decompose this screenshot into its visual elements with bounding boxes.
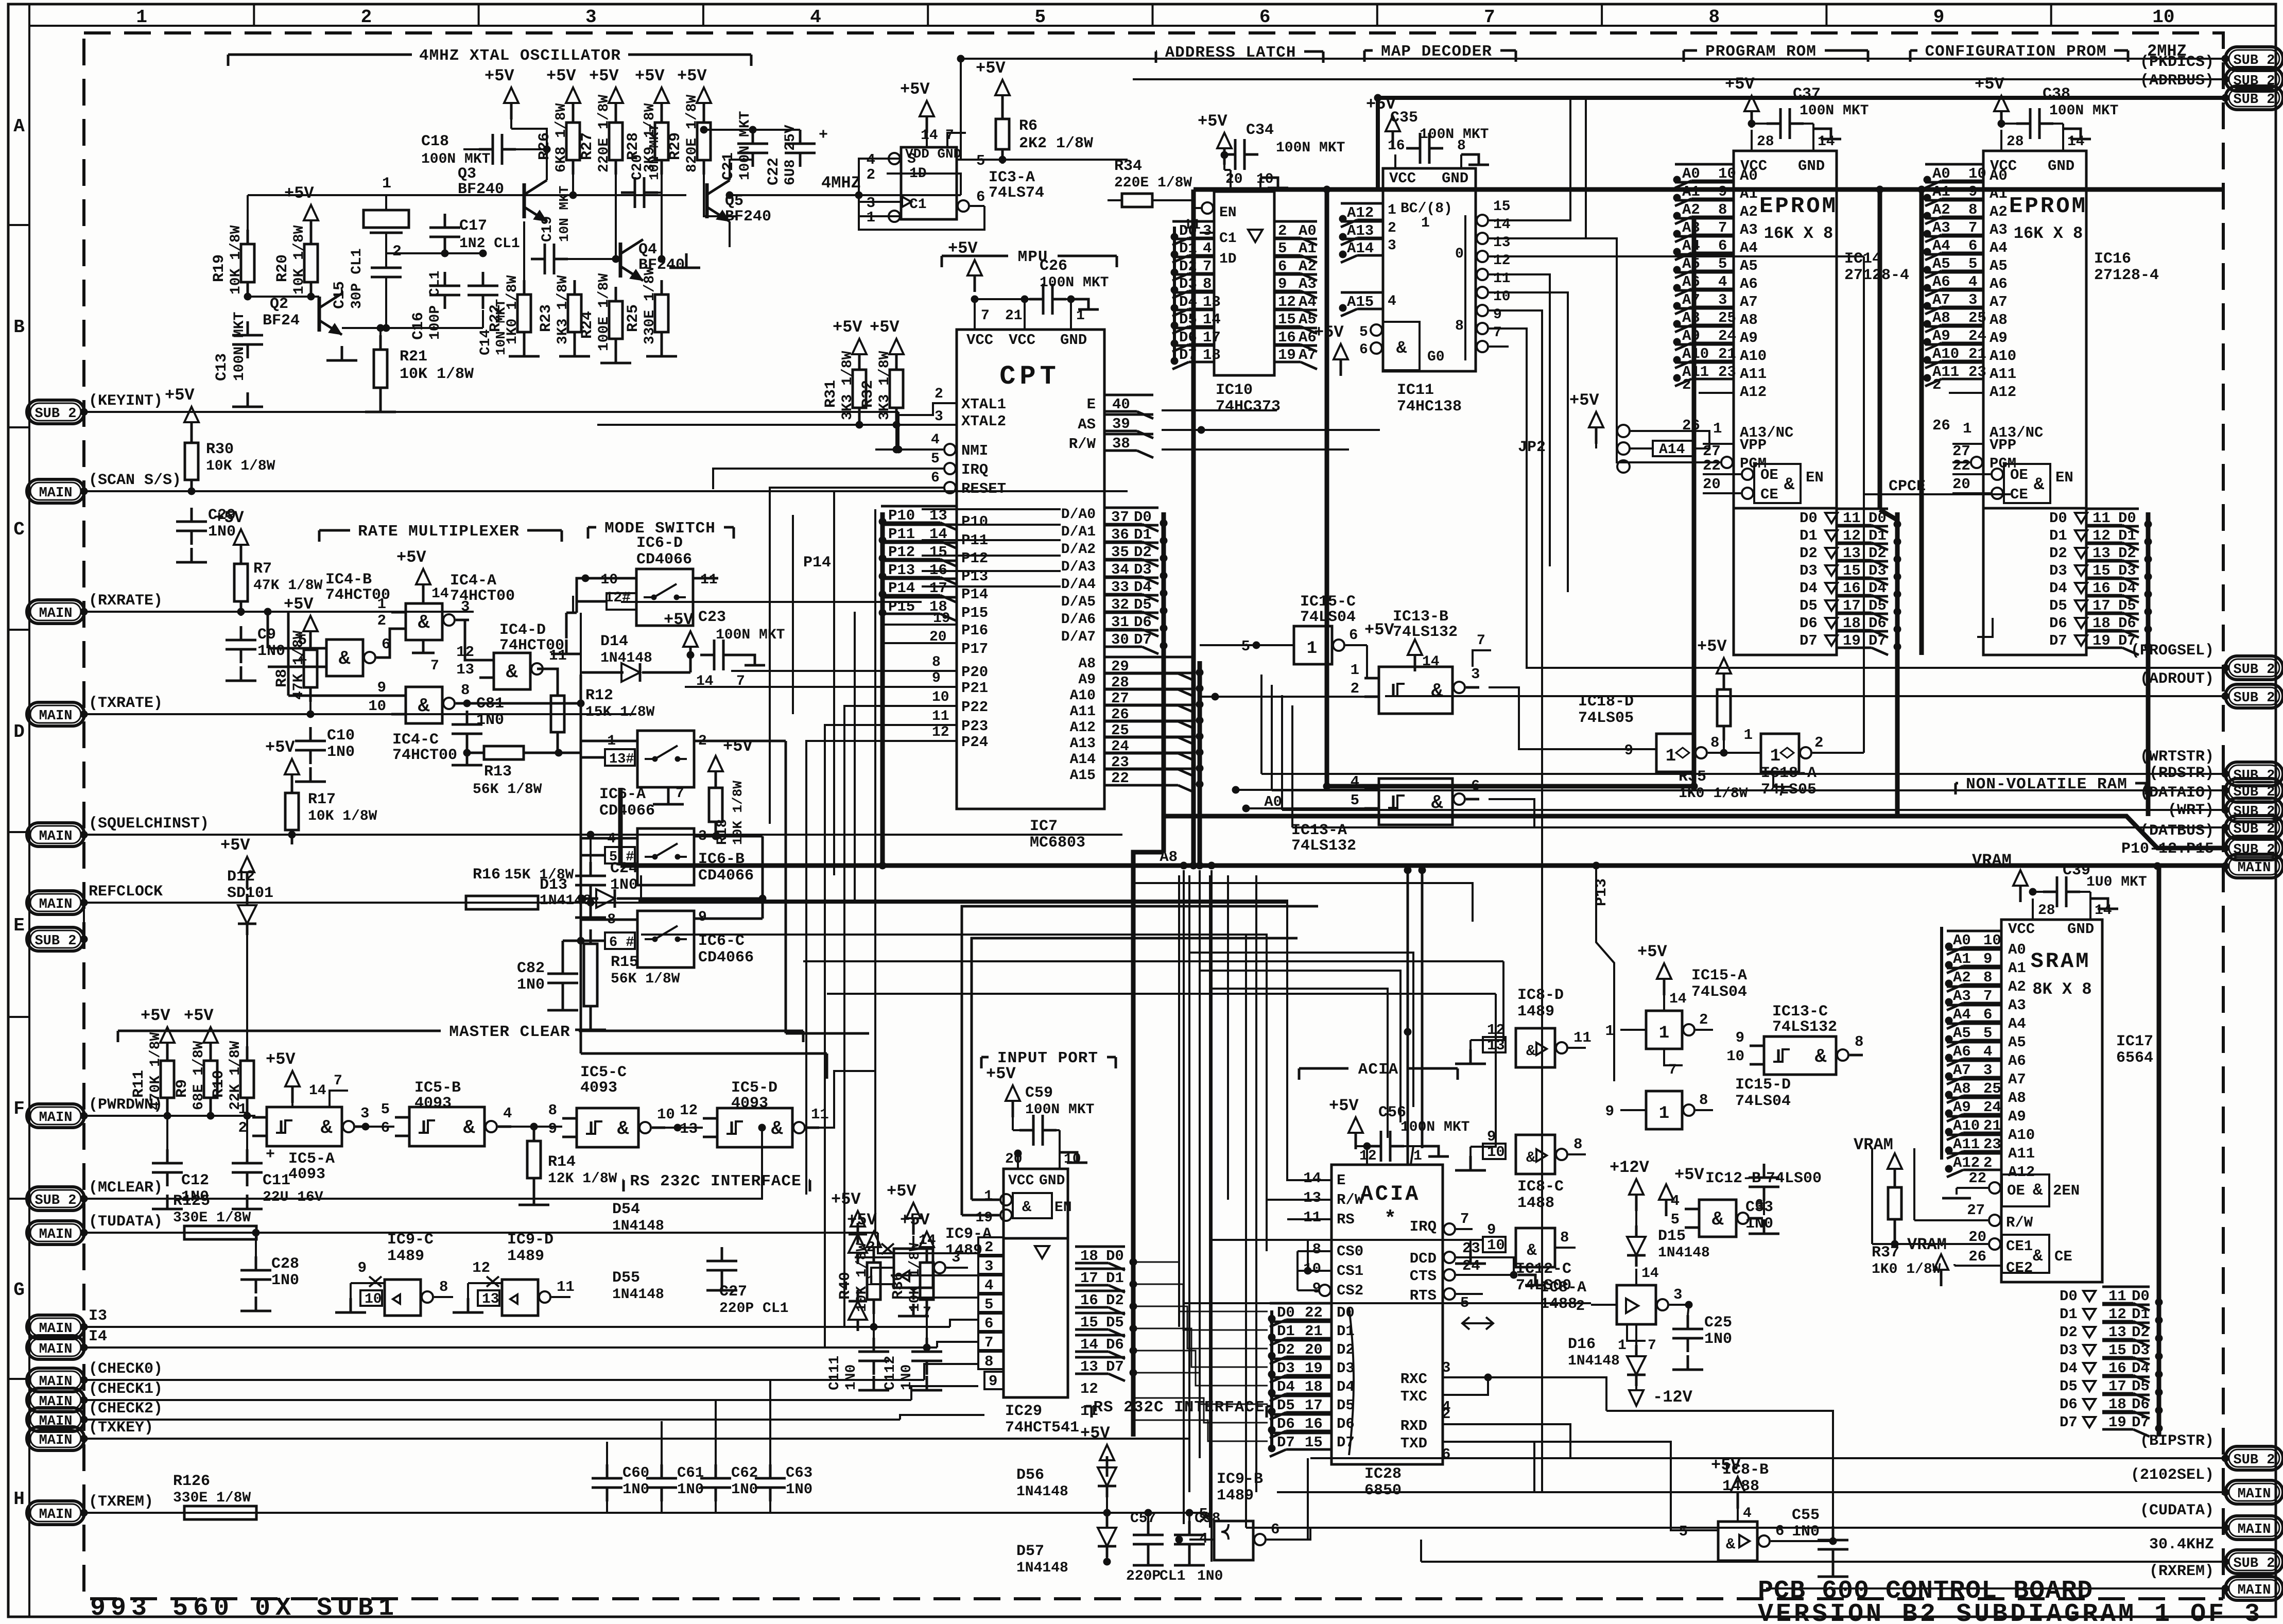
svg-text:D6: D6 bbox=[2049, 615, 2067, 632]
svg-text:7: 7 bbox=[1777, 784, 1786, 800]
svg-text:+: + bbox=[266, 1146, 275, 1164]
svg-text:+5V: +5V bbox=[141, 1006, 170, 1025]
svg-text:3: 3 bbox=[1471, 666, 1480, 683]
svg-text:38: 38 bbox=[1112, 435, 1130, 452]
svg-text:100N MKT: 100N MKT bbox=[1400, 1119, 1469, 1135]
svg-text:A4: A4 bbox=[1740, 239, 1758, 256]
edge tag SUB 2 (WRT) bbox=[2225, 816, 2283, 839]
svg-text:5: 5 bbox=[298, 632, 307, 649]
svg-text:9: 9 bbox=[1624, 742, 1633, 759]
svg-text:12: 12 bbox=[1493, 253, 1511, 269]
resistor R28 bbox=[661, 108, 663, 123]
NAND gate IC13-A 74LS132 bbox=[1379, 779, 1452, 825]
svg-text:330E 1/8W: 330E 1/8W bbox=[173, 1490, 251, 1506]
svg-text:1N4148: 1N4148 bbox=[1568, 1353, 1620, 1369]
svg-text:24: 24 bbox=[1718, 327, 1736, 344]
svg-text:4MHZ XTAL OSCILLATOR: 4MHZ XTAL OSCILLATOR bbox=[419, 47, 621, 65]
svg-text:13: 13 bbox=[482, 1291, 499, 1307]
svg-text:R34: R34 bbox=[1114, 158, 1142, 175]
svg-text:VPP: VPP bbox=[1990, 437, 2016, 454]
power +5V R17 bbox=[285, 759, 299, 774]
svg-text:1489: 1489 bbox=[1217, 1487, 1254, 1505]
svg-text:10N MKT: 10N MKT bbox=[647, 124, 662, 180]
svg-text:1: 1 bbox=[1963, 420, 1971, 437]
wire Q2 collector to R21 node bbox=[341, 289, 343, 293]
svg-text:1N0: 1N0 bbox=[677, 1481, 704, 1498]
svg-text:A8: A8 bbox=[1932, 309, 1950, 326]
svg-text:13: 13 bbox=[1843, 545, 1861, 562]
svg-text:OE: OE bbox=[1760, 467, 1778, 483]
svg-text:1: 1 bbox=[1421, 215, 1430, 231]
svg-text:4093: 4093 bbox=[580, 1079, 617, 1097]
svg-text:+5V: +5V bbox=[1725, 75, 1755, 94]
svg-text:RS 232C INTERFACE: RS 232C INTERFACE bbox=[630, 1172, 801, 1190]
wire mode column bbox=[580, 613, 582, 1004]
wire ACIA loops bbox=[638, 901, 1331, 1180]
svg-text:+5V: +5V bbox=[1364, 620, 1394, 640]
wire I3 bbox=[84, 1326, 950, 1328]
svg-text:D4: D4 bbox=[2060, 1360, 2078, 1377]
svg-text:D0: D0 bbox=[1337, 1304, 1355, 1321]
svg-text:6: 6 bbox=[1259, 7, 1271, 28]
svg-text:D4: D4 bbox=[1277, 1378, 1295, 1395]
section label MASTER CLEAR bbox=[118, 1030, 441, 1032]
capacitor C19 bbox=[531, 258, 545, 261]
MPU IC7 P20-P24 pins bbox=[875, 670, 957, 672]
svg-text:8: 8 bbox=[1708, 7, 1720, 28]
svg-text:1: 1 bbox=[1307, 639, 1317, 659]
svg-text:15: 15 bbox=[2108, 1342, 2126, 1359]
wire osc rail to Q2 bbox=[342, 327, 483, 329]
svg-text:D5: D5 bbox=[1277, 1397, 1295, 1414]
row ruler letters A-H bbox=[8, 224, 29, 226]
svg-text:18: 18 bbox=[1843, 615, 1861, 632]
svg-text:1: 1 bbox=[984, 1188, 993, 1204]
svg-text:25: 25 bbox=[1718, 309, 1736, 326]
svg-text:+5V: +5V bbox=[1637, 942, 1667, 961]
svg-text:C34: C34 bbox=[1246, 122, 1274, 139]
svg-text:C27: C27 bbox=[719, 1283, 747, 1301]
svg-text:A2: A2 bbox=[1299, 258, 1317, 275]
svg-text:21: 21 bbox=[1968, 345, 1986, 362]
svg-text:11: 11 bbox=[1080, 1403, 1098, 1420]
power +5V IC13-B bbox=[1408, 640, 1422, 655]
svg-text:12: 12 bbox=[1843, 527, 1861, 544]
svg-text:A10: A10 bbox=[1682, 345, 1709, 362]
wire 2102SEL bbox=[1277, 1491, 2225, 1493]
svg-text:23: 23 bbox=[1718, 364, 1736, 381]
section label ADDRESS LATCH bbox=[1156, 50, 1157, 53]
svg-text:+5V: +5V bbox=[284, 184, 314, 203]
svg-text:17: 17 bbox=[2108, 1378, 2126, 1395]
wire REFCLOCK bbox=[84, 902, 1287, 904]
svg-text:CD4066: CD4066 bbox=[636, 551, 692, 568]
svg-text:IC10: IC10 bbox=[1216, 382, 1253, 399]
svg-text:1K0 1/8W: 1K0 1/8W bbox=[1679, 786, 1748, 802]
svg-text:A2: A2 bbox=[1682, 201, 1700, 218]
svg-text:D6: D6 bbox=[1277, 1415, 1295, 1432]
svg-text:2: 2 bbox=[1278, 222, 1287, 239]
svg-text:1N0: 1N0 bbox=[257, 643, 285, 660]
edge tag MAIN (TXRATE) bbox=[27, 702, 84, 726]
svg-text:P17: P17 bbox=[961, 641, 988, 658]
ground C13 bbox=[247, 392, 249, 407]
wire KEYINT bbox=[84, 411, 898, 413]
ground C29 bbox=[191, 548, 193, 562]
svg-text:10: 10 bbox=[932, 689, 949, 705]
svg-text:SUB 2: SUB 2 bbox=[2233, 662, 2275, 678]
svg-text:13: 13 bbox=[456, 661, 474, 678]
svg-text:RXC: RXC bbox=[1400, 1371, 1427, 1388]
svg-text:7: 7 bbox=[1648, 1338, 1656, 1354]
svg-text:74LS05: 74LS05 bbox=[1578, 710, 1634, 727]
svg-text:IC17: IC17 bbox=[2116, 1033, 2153, 1050]
svg-text:16: 16 bbox=[1305, 1415, 1323, 1432]
ground C28 bbox=[255, 1297, 257, 1311]
buffer IC9-A 1489 bbox=[894, 1249, 933, 1288]
svg-text:23: 23 bbox=[1983, 1136, 2001, 1153]
svg-text:RS 232C INTERFACE: RS 232C INTERFACE bbox=[1093, 1398, 1265, 1416]
wire Q3 emitter to R22 bbox=[523, 221, 525, 280]
svg-text:6: 6 bbox=[976, 188, 985, 205]
capacitor C12 bbox=[166, 1149, 169, 1163]
wire IC6-A out vertical bbox=[785, 741, 787, 1033]
svg-text:13: 13 bbox=[1493, 235, 1511, 251]
power +5V IC5-A bbox=[285, 1071, 300, 1086]
svg-text:A1: A1 bbox=[1299, 240, 1317, 257]
transistor Q4 bbox=[619, 243, 622, 278]
svg-text:3: 3 bbox=[1442, 1359, 1450, 1376]
resistor R20 bbox=[310, 230, 313, 244]
svg-text:D3: D3 bbox=[2132, 1342, 2150, 1359]
edge tag MAIN (CHECK2) bbox=[27, 1408, 84, 1431]
svg-text:SUB 2: SUB 2 bbox=[2233, 1453, 2275, 1468]
diode D54 bbox=[857, 1253, 859, 1264]
svg-text:IC4-A: IC4-A bbox=[450, 572, 496, 590]
svg-text:A9: A9 bbox=[1932, 327, 1950, 344]
wire E AS RW to right bbox=[1162, 409, 1277, 411]
svg-text:2: 2 bbox=[1814, 734, 1823, 751]
svg-text:MAIN: MAIN bbox=[39, 1433, 73, 1448]
svg-text:14: 14 bbox=[1493, 217, 1511, 233]
svg-text:MAIN: MAIN bbox=[39, 606, 73, 621]
svg-text:A: A bbox=[13, 116, 25, 137]
svg-text:IC29: IC29 bbox=[1005, 1403, 1042, 1420]
svg-text:IC8-A: IC8-A bbox=[1540, 1279, 1586, 1297]
svg-text:(SCAN S/S): (SCAN S/S) bbox=[89, 472, 181, 489]
ground C55 bbox=[1832, 1562, 1835, 1577]
svg-text:C62: C62 bbox=[731, 1464, 758, 1481]
svg-text:A10: A10 bbox=[1740, 348, 1767, 365]
wire SQUELCHINST bbox=[84, 834, 1122, 836]
svg-text:A6: A6 bbox=[2008, 1052, 2026, 1069]
svg-text:+5V: +5V bbox=[265, 738, 295, 757]
section label MAP DECODER bbox=[1364, 49, 1373, 52]
svg-text:100N MKT: 100N MKT bbox=[1420, 127, 1489, 143]
capacitor C26 bbox=[1029, 298, 1043, 301]
wire C18 link bbox=[463, 148, 479, 150]
svg-text:1N4148: 1N4148 bbox=[612, 1218, 664, 1234]
svg-text:C57: C57 bbox=[1130, 1511, 1156, 1527]
wire CPCE bbox=[1864, 493, 2011, 495]
wire REFCLOCK node bbox=[587, 899, 594, 906]
power VRAM R37 bbox=[1888, 1153, 1902, 1169]
svg-text:100N MKT: 100N MKT bbox=[1276, 140, 1345, 156]
transistor Q3 bbox=[523, 183, 526, 218]
svg-text:1: 1 bbox=[238, 1101, 247, 1118]
svg-text:D7: D7 bbox=[2132, 1414, 2150, 1431]
svg-text:(TXRATE): (TXRATE) bbox=[89, 695, 163, 712]
svg-text:1N0: 1N0 bbox=[1792, 1523, 1820, 1541]
svg-text:D7: D7 bbox=[1106, 1358, 1124, 1375]
svg-text:+5V: +5V bbox=[1569, 391, 1599, 410]
svg-text:D7: D7 bbox=[1277, 1434, 1295, 1451]
svg-text:R7: R7 bbox=[253, 560, 272, 578]
capacitor C55 bbox=[1832, 1526, 1835, 1540]
svg-text:IC15-C: IC15-C bbox=[1300, 593, 1356, 611]
ground C12 bbox=[166, 1195, 169, 1209]
svg-text:12: 12 bbox=[1080, 1380, 1098, 1397]
ground IC4-A bbox=[422, 640, 425, 653]
svg-text:7: 7 bbox=[1477, 633, 1485, 649]
svg-text:MC6803: MC6803 bbox=[1030, 834, 1085, 852]
wire C19 to Q4 base bbox=[568, 258, 620, 260]
svg-text:C17: C17 bbox=[459, 217, 487, 235]
svg-text:37: 37 bbox=[1111, 509, 1129, 526]
bus trunk top horizontal bbox=[1194, 187, 2223, 192]
power +5V IC20 bbox=[1006, 1085, 1020, 1101]
svg-text:C60: C60 bbox=[622, 1464, 649, 1481]
svg-text:1489: 1489 bbox=[387, 1248, 424, 1265]
svg-text:(MCLEAR): (MCLEAR) bbox=[89, 1179, 163, 1197]
svg-text:100N MKT: 100N MKT bbox=[716, 627, 785, 643]
svg-text:SUB 2: SUB 2 bbox=[2233, 92, 2275, 108]
svg-text:19: 19 bbox=[2092, 632, 2111, 649]
wire I4 bbox=[84, 1346, 937, 1349]
svg-text:C11: C11 bbox=[263, 1172, 290, 1189]
svg-text:10: 10 bbox=[1726, 1048, 1744, 1065]
svg-text:100N MKT: 100N MKT bbox=[1025, 1102, 1094, 1118]
svg-text:6: 6 bbox=[1278, 258, 1287, 275]
NAND gate IC13-B 74LS132 bbox=[1379, 667, 1452, 714]
svg-text:9: 9 bbox=[548, 1120, 557, 1137]
svg-text:A1: A1 bbox=[1990, 185, 2008, 202]
svg-text:&: & bbox=[1815, 1046, 1827, 1068]
capacitors C60-C63 bbox=[606, 1464, 609, 1478]
svg-text:C28: C28 bbox=[271, 1255, 299, 1273]
svg-text:IC18-D: IC18-D bbox=[1578, 693, 1634, 711]
svg-text:A8: A8 bbox=[1160, 849, 1178, 866]
svg-text:+5V: +5V bbox=[887, 1182, 916, 1201]
svg-text:D4: D4 bbox=[1337, 1378, 1355, 1395]
svg-text:A3: A3 bbox=[1953, 988, 1971, 1005]
svg-text:6: 6 bbox=[1471, 778, 1480, 794]
power +5V IC11 bbox=[1386, 116, 1400, 131]
svg-text:P11: P11 bbox=[888, 526, 915, 543]
svg-text:15: 15 bbox=[1278, 311, 1296, 328]
svg-text:D/A5: D/A5 bbox=[1061, 594, 1096, 610]
svg-text:5: 5 bbox=[1968, 255, 1977, 272]
svg-text:A3: A3 bbox=[1682, 219, 1700, 236]
svg-text:D2: D2 bbox=[2049, 545, 2067, 562]
wire IC15-C in bbox=[1200, 644, 1256, 646]
svg-text:+5V: +5V bbox=[664, 610, 694, 629]
svg-text:3K3 1/8W: 3K3 1/8W bbox=[877, 351, 893, 420]
svg-text:22: 22 bbox=[1968, 1170, 1986, 1187]
svg-text:10: 10 bbox=[1718, 165, 1736, 182]
svg-text:IC13-C: IC13-C bbox=[1772, 1003, 1828, 1021]
svg-text:R27: R27 bbox=[579, 132, 596, 160]
svg-text:EPROM: EPROM bbox=[1759, 194, 1838, 219]
svg-text:IC13-A: IC13-A bbox=[1291, 822, 1347, 839]
svg-text:RXD: RXD bbox=[1400, 1418, 1427, 1435]
svg-text:IRQ: IRQ bbox=[961, 461, 988, 478]
edge tag MAIN (CUDATA) bbox=[2225, 1516, 2283, 1540]
svg-text:A10: A10 bbox=[1932, 345, 1959, 362]
svg-text:C: C bbox=[13, 519, 25, 540]
flip-flop IC3-A pins bbox=[887, 158, 901, 160]
svg-text:5: 5 bbox=[984, 1296, 993, 1313]
svg-text:IC4-B: IC4-B bbox=[325, 571, 372, 589]
svg-text:14: 14 bbox=[1669, 991, 1687, 1007]
svg-text:7: 7 bbox=[1493, 325, 1502, 341]
svg-text:IC28: IC28 bbox=[1364, 1465, 1402, 1483]
svg-text:SUB 2: SUB 2 bbox=[34, 1193, 76, 1208]
power +5V C26 bbox=[967, 260, 982, 275]
svg-text:7: 7 bbox=[981, 308, 990, 324]
svg-text:15K 1/8W: 15K 1/8W bbox=[585, 704, 655, 720]
svg-text:+5V: +5V bbox=[976, 59, 1006, 78]
svg-text:7: 7 bbox=[430, 658, 439, 674]
capacitor C15 lower plate pair bbox=[371, 267, 402, 269]
svg-text:A7: A7 bbox=[1932, 291, 1950, 308]
svg-text:A1: A1 bbox=[1682, 183, 1700, 200]
svg-text:D0: D0 bbox=[1800, 510, 1818, 527]
svg-text:IC15-D: IC15-D bbox=[1735, 1076, 1791, 1094]
svg-text:1N0: 1N0 bbox=[1197, 1568, 1223, 1584]
NAND gate IC5-C 4093 bbox=[577, 1108, 638, 1147]
svg-text:6 #: 6 # bbox=[609, 935, 634, 951]
svg-text:16: 16 bbox=[1843, 580, 1861, 597]
bus trunk DATBUS horizontal bbox=[1164, 816, 2225, 848]
svg-text:9: 9 bbox=[1487, 1221, 1496, 1238]
svg-text:*: * bbox=[1384, 1208, 1396, 1231]
svg-text:3: 3 bbox=[1388, 238, 1396, 254]
svg-text:5: 5 bbox=[1718, 255, 1727, 272]
svg-text:+5V: +5V bbox=[1674, 1165, 1704, 1184]
svg-text:+5V: +5V bbox=[847, 1211, 877, 1230]
svg-text:-12V: -12V bbox=[1653, 1388, 1693, 1407]
svg-text:6K8 1/8W: 6K8 1/8W bbox=[554, 103, 569, 172]
svg-text:(DATBUS): (DATBUS) bbox=[2140, 822, 2214, 840]
svg-text:+5V: +5V bbox=[284, 595, 314, 614]
bus wire PKDICS bbox=[1133, 78, 2225, 80]
svg-text:GND: GND bbox=[1442, 170, 1468, 187]
power +5V C23 bbox=[683, 631, 698, 647]
ACIA IC28 6850 body bbox=[1331, 1165, 1443, 1464]
svg-text:100E 1/8W: 100E 1/8W bbox=[596, 273, 612, 351]
junction dots on buses bbox=[1160, 520, 1167, 527]
svg-text:A8: A8 bbox=[1953, 1080, 1971, 1097]
svg-text:2: 2 bbox=[1576, 1298, 1585, 1315]
bus trunk vertical ADRBUS drop bbox=[1376, 98, 1380, 189]
svg-text:24: 24 bbox=[1983, 1099, 2001, 1116]
power +5V R6 bbox=[995, 80, 1010, 95]
svg-text:6U8 25V: 6U8 25V bbox=[783, 125, 799, 185]
svg-text:8: 8 bbox=[1203, 275, 1212, 292]
svg-text:40: 40 bbox=[1112, 396, 1130, 413]
wire C20 row bbox=[658, 192, 662, 194]
wire mesh interconnect bbox=[898, 448, 943, 451]
svg-text:R30: R30 bbox=[206, 441, 234, 458]
svg-text:9: 9 bbox=[377, 679, 386, 696]
svg-text:P14: P14 bbox=[888, 580, 915, 597]
svg-text:CS2: CS2 bbox=[1337, 1282, 1363, 1299]
svg-text:A4: A4 bbox=[1682, 237, 1700, 254]
svg-text:16: 16 bbox=[2092, 580, 2111, 597]
wire IC13-A out bbox=[1489, 799, 1534, 827]
svg-text:DCD: DCD bbox=[1410, 1250, 1437, 1267]
svg-text:10: 10 bbox=[365, 1291, 382, 1307]
bus trunk corner at CPT bbox=[618, 788, 623, 866]
svg-text:8K X 8: 8K X 8 bbox=[2032, 980, 2091, 999]
svg-text:18: 18 bbox=[1203, 347, 1221, 364]
svg-text:11: 11 bbox=[1493, 271, 1511, 287]
svg-text:D/A7: D/A7 bbox=[1061, 629, 1096, 645]
edge tag MAIN P10-12.P15 bbox=[2225, 854, 2283, 878]
ground C33 bbox=[1763, 1219, 1766, 1234]
wire R21 top bbox=[379, 328, 382, 335]
svg-text:A9: A9 bbox=[1740, 330, 1758, 347]
wire 4MHZ output bbox=[730, 194, 961, 196]
svg-text:ACIA: ACIA bbox=[1360, 1182, 1421, 1206]
svg-text:D3: D3 bbox=[1800, 562, 1818, 579]
resistor R6 2K2 bbox=[1001, 105, 1004, 119]
svg-text:6: 6 bbox=[1442, 1446, 1450, 1463]
wire R37 down bbox=[1894, 1234, 1896, 1244]
svg-text:C15: C15 bbox=[331, 281, 349, 309]
wire C23 bbox=[689, 655, 691, 663]
wire C26 rail bbox=[975, 298, 1029, 300]
svg-text:7: 7 bbox=[1484, 7, 1495, 28]
resistor R22 bbox=[523, 280, 526, 295]
capacitor C111 bbox=[873, 1338, 875, 1352]
svg-text:1N4148: 1N4148 bbox=[600, 650, 652, 666]
power +5V IC8-B bbox=[1731, 1477, 1745, 1492]
svg-text:D3: D3 bbox=[2049, 562, 2067, 579]
edge tag SUB 2 (DATAIO) bbox=[2225, 798, 2283, 822]
svg-text:21: 21 bbox=[1005, 308, 1023, 324]
capacitor C29 bbox=[191, 508, 193, 522]
svg-text:5: 5 bbox=[1241, 638, 1250, 655]
svg-text:E: E bbox=[13, 915, 25, 936]
svg-text:17: 17 bbox=[1843, 597, 1861, 614]
svg-text:16: 16 bbox=[1080, 1292, 1098, 1309]
svg-text:REFCLOCK: REFCLOCK bbox=[89, 883, 163, 901]
svg-text:+5V: +5V bbox=[900, 1211, 930, 1230]
wire PWRDWN nodes bbox=[164, 1112, 171, 1119]
svg-text:5: 5 bbox=[1035, 7, 1046, 28]
svg-text:26: 26 bbox=[1932, 417, 1950, 434]
svg-text:R/W: R/W bbox=[2006, 1214, 2033, 1231]
svg-text:6: 6 bbox=[1983, 1006, 1992, 1023]
wire Q5 collector 4MHZ bbox=[730, 160, 753, 180]
svg-text:IC12-C: IC12-C bbox=[1516, 1260, 1571, 1278]
svg-text:1: 1 bbox=[1605, 1023, 1614, 1040]
svg-text:24: 24 bbox=[1968, 327, 1986, 344]
svg-text:4093: 4093 bbox=[414, 1095, 452, 1112]
svg-text:6850: 6850 bbox=[1364, 1482, 1402, 1499]
